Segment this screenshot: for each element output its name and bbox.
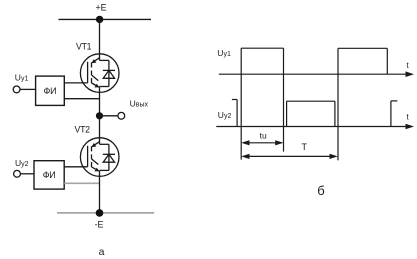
Uy2 axis [216, 126, 409, 128]
Uy2 main pulse top [287, 100, 335, 102]
VT1 drain diagonal [92, 58, 99, 63]
Uy1 pulse 1 falling edge + extension line [283, 48, 285, 151]
terminal Uvyh output circle [118, 112, 125, 119]
Uy1 axis [219, 73, 409, 75]
Uy1 pulse 1 rising edge + extension line [240, 48, 242, 159]
dimension tu left arrowhead [241, 140, 249, 145]
svg-text:tu: tu [260, 130, 267, 140]
Uy2 right partial pulse top [391, 100, 398, 102]
node junction dot on +E rail [96, 16, 103, 23]
wire: FI2 lower output to source wire (gray) [64, 182, 99, 184]
Uy2 left partial pulse top [232, 99, 237, 101]
svg-text:-E: -E [95, 220, 104, 230]
VT1 channel segment bottom [91, 78, 93, 83]
Uy2 main pulse rising edge [286, 101, 288, 126]
VT2 source arrowhead [95, 168, 100, 172]
VT1 body circle [80, 54, 119, 93]
svg-text:+E: +E [95, 3, 106, 13]
VT2 drain diagonal [92, 142, 99, 147]
VT1 diode branch top wire [100, 59, 109, 61]
VT2 diode branch vertical wire [108, 144, 110, 170]
VT1 diode branch vertical wire [108, 60, 110, 86]
VT1 body diode triangle [103, 70, 114, 78]
dimension T line [244, 155, 335, 157]
Uy1 pulse 2 falling edge [386, 48, 388, 74]
Uy1 pulse 2 top [338, 47, 387, 49]
svg-text:VT1: VT1 [76, 41, 92, 51]
node Uvyh junction dot [96, 112, 103, 119]
Uy1 axis arrowhead [406, 71, 415, 77]
Uy2 main pulse falling edge [334, 101, 336, 126]
VT2 channel segment top [91, 146, 93, 151]
VT2 source diagonal [92, 167, 99, 171]
dimension tu line [244, 142, 281, 144]
VT2 body circle [80, 138, 119, 177]
VT1 channel segment middle [91, 71, 93, 76]
wire: Uy2 terminal to FI2 [20, 173, 34, 175]
wire: FI2 output to VT2 gate [64, 166, 87, 168]
VT1 substrate diagonal [92, 75, 99, 81]
svg-text:ФИ: ФИ [43, 170, 56, 180]
Uy2 right partial pulse rising edge [390, 101, 392, 127]
wire: FI1 output to VT1 gate [64, 82, 87, 84]
VT2 substrate diagonal [92, 159, 99, 165]
Uy2 axis arrowhead [406, 124, 415, 130]
Uy1 pulse 1 top [241, 47, 283, 49]
wire: VT2 source down to -E rail [99, 170, 101, 213]
VT2 body diode triangle [103, 154, 114, 162]
wire: VT1 source down to output node [99, 87, 101, 116]
VT1 source diagonal [92, 83, 99, 87]
VT1 gate bar [87, 62, 89, 83]
VT2 channel segment middle [91, 154, 93, 159]
dimension tu right arrowhead [275, 140, 283, 145]
Uy2 left partial pulse falling edge [236, 100, 238, 127]
-E rail (gray) [57, 212, 154, 214]
wire: output node down to VT2 drain [99, 116, 101, 145]
VT1 body diode cathode bar [103, 69, 115, 71]
dimension T left arrowhead [241, 154, 249, 159]
VT2 diode branch top wire [100, 143, 109, 145]
VT2 gate bar [87, 146, 89, 167]
dimension T right arrowhead [330, 154, 338, 159]
wire: Uy1 terminal to FI1 [20, 88, 36, 90]
transistor VT1 [80, 54, 119, 93]
svg-text:T: T [302, 142, 308, 152]
wire: drain of VT1 to +E rail [99, 19, 101, 60]
pulse shaper FI2 box [34, 161, 64, 189]
VT2 body diode cathode bar [103, 153, 115, 155]
node junction dot on -E rail [96, 209, 104, 217]
VT1 source arrowhead [95, 84, 100, 88]
svg-text:VT2: VT2 [75, 124, 91, 134]
wire: FI1 lower output to source wire [64, 98, 99, 100]
svg-text:ФИ: ФИ [44, 86, 57, 96]
svg-text:б: б [317, 183, 324, 198]
terminal Uy2 input circle [14, 170, 21, 177]
VT2 diode branch bottom wire [100, 169, 109, 171]
VT1 drain arrowhead [92, 59, 97, 63]
+E rail [59, 18, 152, 20]
terminal Uy1 input circle [13, 86, 20, 93]
VT1 diode branch bottom wire [100, 86, 109, 88]
VT2 channel segment bottom [91, 162, 93, 167]
pulse shaper FI1 box [36, 76, 65, 105]
transistor VT2 [80, 138, 119, 177]
wire: output node to Uvyh terminal [100, 115, 118, 117]
Uy1 pulse 2 rising edge + extension line [337, 48, 339, 160]
VT2 drain arrowhead [92, 143, 97, 147]
VT1 channel segment top [91, 62, 93, 67]
svg-text:а: а [99, 246, 105, 258]
